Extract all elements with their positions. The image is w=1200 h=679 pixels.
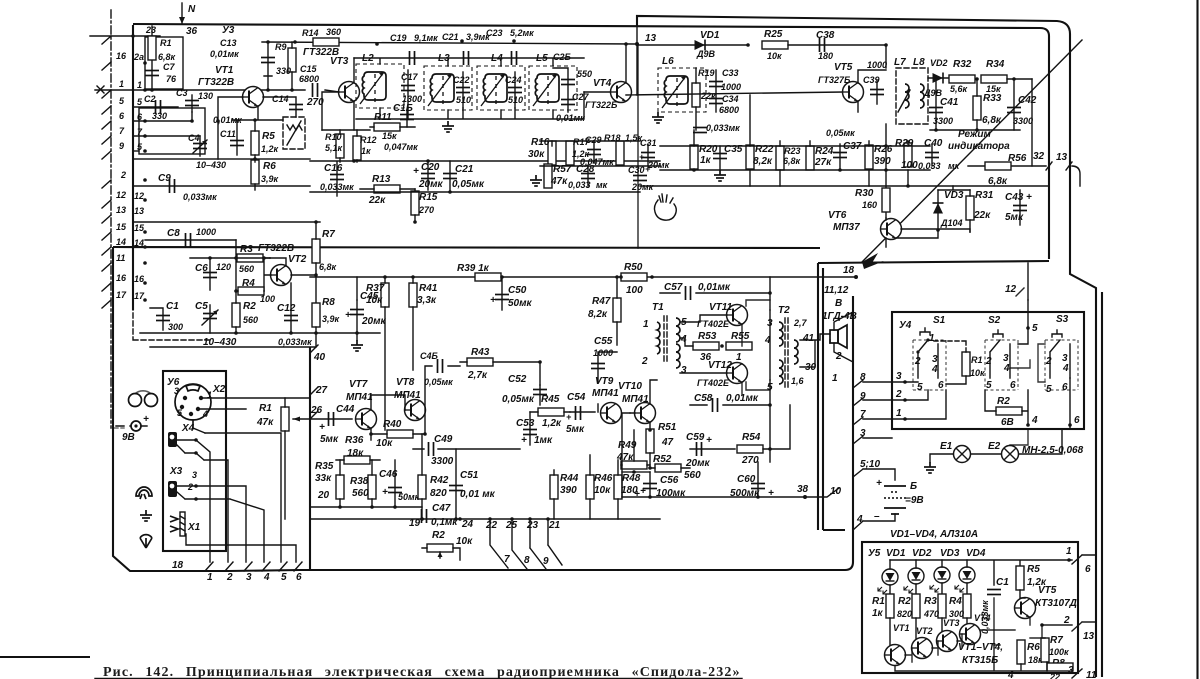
svg-text:Х3: Х3 <box>169 466 183 477</box>
transistor VT7 <box>356 409 377 430</box>
wire T2 to speaker <box>800 334 830 367</box>
svg-text:R5: R5 <box>262 131 275 142</box>
svg-text:1,2к: 1,2к <box>542 418 562 429</box>
U6 internal verticals <box>186 420 296 562</box>
capacitor C22 <box>462 72 464 108</box>
svg-text:С19: С19 <box>390 33 407 43</box>
capacitor C3 <box>191 95 193 112</box>
left margin rule at bottom <box>0 656 90 658</box>
svg-text:С34: С34 <box>722 94 739 104</box>
main board U3 outer top border <box>637 16 1096 677</box>
svg-text:С47: С47 <box>432 503 451 514</box>
svg-text:ГТ322Б: ГТ322Б <box>585 100 618 110</box>
svg-text:3: 3 <box>246 572 252 583</box>
svg-text:17: 17 <box>116 290 127 300</box>
svg-text:820: 820 <box>430 488 447 499</box>
svg-text:510: 510 <box>508 95 523 105</box>
transistor VT1 (U5) <box>885 645 906 666</box>
capacitor C38 <box>788 44 886 46</box>
svg-text:VТ1–VТ4,: VТ1–VТ4, <box>958 642 1003 653</box>
transistor VT5 <box>843 82 864 103</box>
label 18 <box>854 275 858 279</box>
ground C45 <box>351 340 363 351</box>
lower rail y192 <box>310 191 640 193</box>
svg-text:3: 3 <box>896 371 902 382</box>
svg-text:С24: С24 <box>505 75 522 85</box>
svg-text:Х2: Х2 <box>212 384 226 395</box>
pin 12 <box>102 200 111 208</box>
svg-text:VТ5: VТ5 <box>834 62 853 73</box>
svg-text:С56: С56 <box>660 475 679 486</box>
svg-text:50мк: 50мк <box>508 298 533 309</box>
svg-text:0,01мк: 0,01мк <box>556 113 585 123</box>
svg-text:47к: 47к <box>550 176 568 187</box>
svg-text:5,6к: 5,6к <box>950 84 968 94</box>
capacitor C1 (U5) <box>994 598 1000 645</box>
capacitor C17 <box>407 70 409 108</box>
capacitor C27 <box>561 100 575 105</box>
svg-text:ГТ322В: ГТ322В <box>258 243 294 254</box>
ground E1 <box>930 454 953 462</box>
svg-text:13: 13 <box>645 33 657 44</box>
svg-text:МП41: МП41 <box>592 388 619 399</box>
vertical x886 down <box>885 124 887 218</box>
resistor R2 (U5) <box>912 594 920 618</box>
resistor R2 trimmer <box>427 544 453 552</box>
wire VT6 row <box>886 218 970 247</box>
svg-text:R2: R2 <box>432 530 445 541</box>
svg-text:270: 270 <box>741 455 759 466</box>
svg-text:VТ8: VТ8 <box>396 377 415 388</box>
diode VD1 <box>637 44 748 46</box>
junction dots rails <box>352 159 356 163</box>
wire bus x133 nodes <box>131 34 135 38</box>
resistor R44 <box>550 475 558 499</box>
svg-text:13: 13 <box>1056 152 1068 163</box>
main board U3 inner top border <box>133 24 1049 259</box>
transistor VT4 <box>611 82 632 103</box>
svg-text:+: + <box>413 166 419 177</box>
svg-text:VТ9: VТ9 <box>595 376 614 387</box>
hand doodle <box>654 194 676 220</box>
svg-text:6В: 6В <box>1001 417 1014 428</box>
wire VT1 emitter <box>232 106 283 120</box>
svg-text:20мк: 20мк <box>631 182 654 192</box>
svg-text:R1: R1 <box>259 403 272 414</box>
svg-text:R41: R41 <box>419 283 438 294</box>
wire VT1 base <box>218 97 243 159</box>
svg-text:Б: Б <box>910 481 917 492</box>
IF row rail y141 <box>540 140 640 142</box>
resistor R46 <box>586 475 594 499</box>
svg-text:20мк: 20мк <box>685 458 711 469</box>
capacitor C54 <box>570 411 595 413</box>
pin 15 <box>102 232 111 240</box>
svg-text:VD3: VD3 <box>944 190 964 201</box>
page right edge scan line <box>1196 0 1198 679</box>
resistor R8 <box>312 303 320 327</box>
antenna jack X1 <box>170 516 178 532</box>
capacitor C30 electrolytic <box>633 176 647 181</box>
svg-text:VТ12: VТ12 <box>708 360 732 371</box>
svg-text:0,047мк: 0,047мк <box>384 142 418 152</box>
svg-text:R3: R3 <box>240 244 253 255</box>
ground icon <box>140 510 152 521</box>
resistor R1 (U5) <box>886 594 894 618</box>
svg-text:5: 5 <box>767 382 773 393</box>
svg-text:1: 1 <box>207 572 213 583</box>
svg-text:10–430: 10–430 <box>196 160 226 170</box>
svg-text:R50: R50 <box>624 262 643 273</box>
jack X4 <box>168 432 177 447</box>
svg-text:С17: С17 <box>401 72 419 82</box>
svg-text:С1Б: С1Б <box>393 103 413 114</box>
svg-text:ГТ322В: ГТ322В <box>303 47 339 58</box>
svg-text:330: 330 <box>152 111 167 121</box>
svg-text:2: 2 <box>641 356 648 367</box>
terminal 1 <box>205 562 213 571</box>
svg-text:9: 9 <box>119 141 124 151</box>
svg-text:10к: 10к <box>767 51 782 61</box>
svg-text:12: 12 <box>1005 284 1017 295</box>
transistor VT4 (U5) <box>960 624 981 645</box>
svg-text:S3: S3 <box>1056 314 1069 325</box>
svg-text:4: 4 <box>263 572 270 583</box>
svg-text:R6: R6 <box>263 161 276 172</box>
wire x1032 <box>1031 79 1033 166</box>
resistor R43 <box>467 358 493 366</box>
svg-text:С60: С60 <box>737 474 756 485</box>
svg-text:20: 20 <box>317 490 330 501</box>
svg-text:0,033мк: 0,033мк <box>980 600 990 634</box>
svg-text:550: 550 <box>577 69 592 79</box>
resistor R31 <box>966 196 974 220</box>
pin 9 <box>102 151 111 159</box>
capacitor C45b wire <box>356 277 358 300</box>
connector X2 <box>175 384 211 420</box>
wire VT2 emitter-collector <box>270 258 316 275</box>
svg-text:R32: R32 <box>953 59 972 70</box>
wire 27 terminal <box>310 387 318 395</box>
svg-text:100к: 100к <box>1049 647 1069 657</box>
transformer T2 core <box>785 318 788 390</box>
svg-text:7: 7 <box>504 554 510 565</box>
svg-text:R55: R55 <box>731 331 750 342</box>
pin 23/top <box>102 36 111 44</box>
thermistor box <box>283 117 305 149</box>
svg-text:0,01мк: 0,01мк <box>698 282 731 293</box>
vertical x637 <box>636 25 638 95</box>
antenna icon <box>140 535 152 548</box>
svg-text:С1: С1 <box>996 577 1009 588</box>
svg-text:10к: 10к <box>970 368 985 378</box>
capacitor C36 <box>693 128 707 133</box>
svg-text:5: 5 <box>917 382 923 393</box>
svg-text:1: 1 <box>137 80 142 90</box>
svg-text:270: 270 <box>418 205 434 215</box>
svg-text:С5: С5 <box>195 301 208 312</box>
U4 block border <box>892 312 1084 429</box>
capacitor C8 <box>145 239 236 241</box>
svg-text:180: 180 <box>818 51 833 61</box>
capacitor C35 <box>713 154 727 159</box>
T1 primary winding <box>657 322 660 354</box>
wire X2 right pin <box>198 408 246 410</box>
svg-text:R7: R7 <box>322 229 335 240</box>
svg-text:13: 13 <box>134 206 144 216</box>
capacitor C42 <box>1013 79 1015 130</box>
svg-text:14: 14 <box>116 237 126 247</box>
svg-text:С42: С42 <box>1018 95 1037 106</box>
svg-text:23: 23 <box>526 520 539 531</box>
svg-text:0,033мк: 0,033мк <box>278 337 312 347</box>
svg-text:390: 390 <box>560 485 577 496</box>
AF verticals to terminals <box>490 519 562 569</box>
svg-text:R13: R13 <box>372 174 391 185</box>
svg-text:820: 820 <box>897 609 912 619</box>
resistor R1 (U4) <box>962 352 970 376</box>
resistor R26 <box>865 145 873 169</box>
wire R56 right curve <box>1072 166 1080 186</box>
svg-text:6: 6 <box>938 380 944 391</box>
svg-text:+: + <box>490 295 496 306</box>
svg-text:R47: R47 <box>592 296 611 307</box>
svg-text:R53: R53 <box>698 331 717 342</box>
capacitor C40 <box>925 153 939 158</box>
X2 stem <box>193 398 310 433</box>
junction dots af <box>383 275 387 279</box>
svg-text:1000: 1000 <box>721 82 741 92</box>
svg-text:R48: R48 <box>622 473 641 484</box>
svg-text:6800: 6800 <box>299 74 319 84</box>
svg-text:КТ315Б: КТ315Б <box>962 655 998 666</box>
svg-text:С50: С50 <box>508 285 527 296</box>
capacitor C11 <box>236 120 238 155</box>
svg-text:1: 1 <box>832 373 838 384</box>
terminal 2 <box>225 562 233 571</box>
svg-text:0,033мк: 0,033мк <box>320 182 354 192</box>
capacitor C45 electrolytic <box>356 300 358 340</box>
IF can L4 <box>477 66 525 110</box>
svg-text:160: 160 <box>862 200 877 210</box>
svg-text:R12: R12 <box>360 135 377 145</box>
svg-text:VD1–VD4, АЛ310А: VD1–VD4, АЛ310А <box>890 529 978 540</box>
svg-text:0,01 мк: 0,01 мк <box>460 489 496 500</box>
svg-text:R52: R52 <box>653 454 672 465</box>
svg-text:R33: R33 <box>983 93 1002 104</box>
svg-text:8: 8 <box>524 555 530 566</box>
svg-text:R10: R10 <box>325 132 342 142</box>
svg-text:+: + <box>1026 192 1032 203</box>
svg-text:10к: 10к <box>594 485 611 496</box>
U5 internal wires <box>905 617 1045 662</box>
vertical x770 <box>769 277 771 462</box>
pin 1 <box>102 90 111 98</box>
IF row rail y166 <box>540 165 660 167</box>
diagonal wire 12 to S2 <box>1027 263 1029 300</box>
svg-text:16: 16 <box>116 51 127 61</box>
capacitor C13 <box>264 42 272 90</box>
resistor R22 <box>746 145 754 169</box>
capacitor C56 electrolytic <box>649 472 651 497</box>
mid rail y160 <box>310 160 660 162</box>
connector X strip dash-dot line <box>110 10 112 428</box>
svg-text:3300: 3300 <box>431 456 454 467</box>
svg-text:R34: R34 <box>986 59 1005 70</box>
svg-text:5: 5 <box>1032 323 1038 334</box>
svg-text:VD1: VD1 <box>886 548 906 559</box>
svg-text:С21: С21 <box>442 32 459 42</box>
svg-text:6: 6 <box>1074 415 1080 426</box>
resistor R40 <box>387 430 413 438</box>
svg-text:1: 1 <box>896 408 902 419</box>
resistor R10 <box>336 134 344 158</box>
wire VT11 VT12 emitters <box>742 300 770 395</box>
svg-text:С52: С52 <box>508 374 527 385</box>
svg-text:0,01мк: 0,01мк <box>210 49 239 59</box>
wire VT2 base <box>264 258 271 291</box>
resistor R7 <box>312 239 320 263</box>
svg-text:С33: С33 <box>722 68 739 78</box>
capacitor C39 <box>858 80 877 112</box>
rail y168 det <box>660 169 930 171</box>
svg-text:470: 470 <box>923 609 939 619</box>
svg-text:R3: R3 <box>924 596 937 607</box>
svg-text:VD4: VD4 <box>966 548 986 559</box>
svg-text:С3: С3 <box>176 88 188 98</box>
resistor R48 <box>614 475 622 499</box>
capacitor C29 <box>587 150 601 155</box>
svg-text:11,12: 11,12 <box>824 285 849 296</box>
wire corner down to L7 <box>885 45 887 68</box>
wire VT8 base <box>371 410 405 440</box>
svg-text:+: + <box>566 412 572 422</box>
svg-text:1000: 1000 <box>196 227 216 237</box>
svg-text:С21: С21 <box>455 164 474 175</box>
svg-text:Х1: Х1 <box>187 522 201 533</box>
svg-text:8,2к: 8,2к <box>588 309 608 320</box>
svg-text:1к: 1к <box>361 146 371 156</box>
svg-text:С40: С40 <box>924 138 943 149</box>
svg-text:У5: У5 <box>868 548 881 559</box>
svg-text:20мк: 20мк <box>418 179 444 190</box>
transistor VT3 <box>339 82 360 103</box>
series capacitor C19 <box>410 51 415 65</box>
svg-text:6: 6 <box>296 572 302 583</box>
battery 9V icon <box>131 421 141 431</box>
svg-text:9: 9 <box>543 556 549 567</box>
svg-text:С58: С58 <box>694 393 713 404</box>
svg-text:2: 2 <box>895 389 902 400</box>
svg-text:С43: С43 <box>1005 192 1024 203</box>
svg-text:50мк: 50мк <box>398 492 420 502</box>
svg-text:R23: R23 <box>784 146 801 156</box>
svg-text:R36: R36 <box>345 435 364 446</box>
wire y42 rail left <box>262 42 637 44</box>
svg-text:2: 2 <box>187 482 193 492</box>
resistor R54 <box>737 445 763 453</box>
svg-text:330: 330 <box>276 66 291 76</box>
svg-text:300: 300 <box>168 322 183 332</box>
svg-text:1: 1 <box>929 333 935 344</box>
bus y519 <box>310 518 660 520</box>
resistor R35 <box>336 475 344 499</box>
wire det row verticals <box>694 95 908 186</box>
svg-text:22к: 22к <box>368 195 386 206</box>
capacitor C26 <box>553 68 568 112</box>
svg-text:С7: С7 <box>163 62 175 72</box>
svg-text:1,2к: 1,2к <box>261 144 279 154</box>
svg-text:+: + <box>521 435 527 446</box>
wire L5 to VT4 base <box>584 91 610 93</box>
rail y186 <box>640 185 1049 187</box>
svg-text:4: 4 <box>1062 363 1069 374</box>
U6 block border <box>163 371 226 551</box>
variable capacitor C5 <box>203 314 217 319</box>
transistor VT1 <box>243 87 264 108</box>
capacitor C33 <box>715 70 717 112</box>
T2 primary windings <box>779 322 783 346</box>
svg-text:мк: мк <box>948 161 960 171</box>
svg-text:510: 510 <box>456 95 471 105</box>
transistor VT8 <box>405 400 426 421</box>
svg-text:ГТ402Е: ГТ402Е <box>697 378 730 388</box>
capacitor C12 <box>284 316 298 321</box>
svg-text:В: В <box>835 298 842 309</box>
svg-text:12: 12 <box>134 191 144 201</box>
svg-text:76: 76 <box>166 74 177 84</box>
antenna input cross <box>95 86 133 93</box>
node N arrow at top <box>181 3 183 24</box>
svg-text:С49: С49 <box>434 434 453 445</box>
svg-text:2: 2 <box>226 572 233 583</box>
svg-text:+: + <box>345 310 351 321</box>
resistor R42 <box>418 475 426 499</box>
svg-text:R24: R24 <box>815 146 834 157</box>
ground C35 <box>714 170 726 181</box>
resistor R32 <box>949 75 975 83</box>
svg-text:4: 4 <box>1003 363 1010 374</box>
resistor R12 <box>353 136 361 160</box>
svg-text:1,6: 1,6 <box>791 376 805 386</box>
svg-text:2: 2 <box>120 170 126 180</box>
svg-text:С9: С9 <box>158 173 171 184</box>
battery G plus <box>884 481 906 486</box>
capacitor C51 <box>455 449 457 519</box>
svg-text:Т1: Т1 <box>652 302 664 313</box>
svg-text:+: + <box>143 414 149 425</box>
bus numbers <box>458 517 462 521</box>
svg-text:R29: R29 <box>895 138 914 149</box>
capacitor C20 electrolytic <box>427 161 429 190</box>
vertical x640 mid <box>637 45 639 248</box>
wire osc row <box>133 159 310 162</box>
svg-text:10к: 10к <box>366 295 383 306</box>
svg-text:10к: 10к <box>376 438 393 449</box>
resistor R14 <box>313 38 339 46</box>
U3 bottom border right thick <box>818 261 1049 263</box>
pin 5 <box>102 106 111 114</box>
resistor R52 <box>655 464 681 472</box>
svg-text:R19: R19 <box>698 68 715 78</box>
lamp E2 <box>1002 446 1019 463</box>
svg-text:18: 18 <box>172 560 184 571</box>
svg-text:R2: R2 <box>898 596 911 607</box>
svg-text:33к: 33к <box>315 473 332 484</box>
svg-text:VD3: VD3 <box>940 548 960 559</box>
svg-text:Рис. 142. Принципиальная элект: Рис. 142. Принципиальная электрическая с… <box>103 665 741 679</box>
resistor R24 <box>806 146 814 170</box>
